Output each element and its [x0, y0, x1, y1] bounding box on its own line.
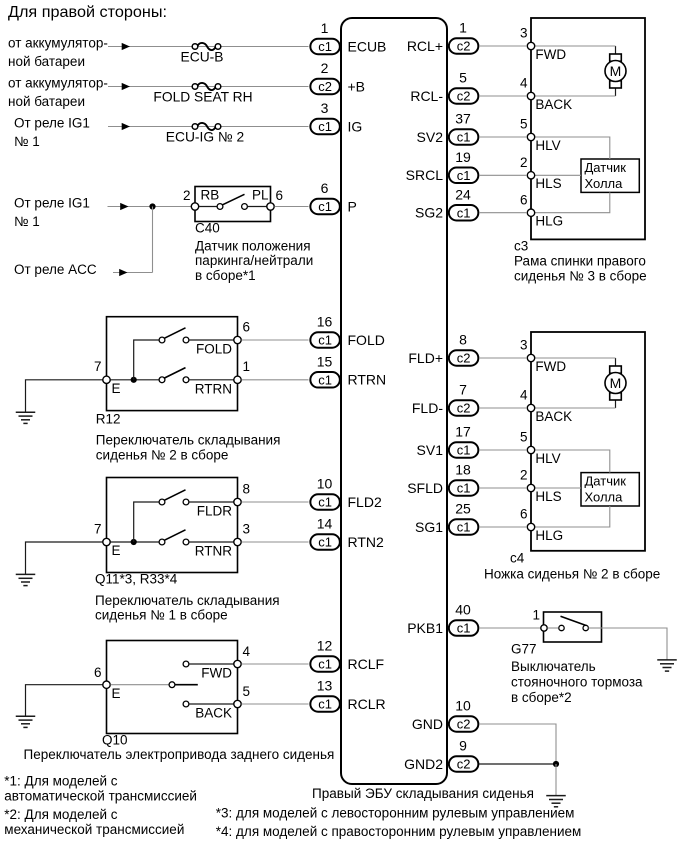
Q11 internal E wire [111, 541, 160, 543]
c4 caption [484, 567, 660, 582]
svg-text:7: 7 [94, 359, 102, 374]
svg-text:5: 5 [459, 70, 467, 86]
svg-text:2: 2 [520, 468, 528, 483]
svg-text:5: 5 [243, 684, 251, 699]
footnote *3 [216, 806, 575, 821]
svg-text:От реле IG1: От реле IG1 [14, 116, 90, 131]
svg-text:2: 2 [520, 155, 528, 170]
svg-text:c1: c1 [457, 621, 471, 636]
wire GND2 [479, 763, 556, 765]
svg-text:6: 6 [243, 319, 251, 334]
svg-text:3: 3 [321, 100, 329, 116]
svg-text:Холла: Холла [585, 176, 624, 191]
svg-text:c2: c2 [457, 717, 471, 732]
G77 wire out [589, 627, 602, 629]
pin number 18 (SFLD) [455, 462, 471, 478]
wire FLD- to assembly [479, 407, 527, 409]
C40 pin label 6 [276, 188, 284, 203]
C40 blade [223, 194, 245, 205]
svg-text:RCL-: RCL- [410, 88, 443, 104]
pin number 1 (RCL+) [459, 20, 467, 36]
connector c oval pin 7 FLD- [449, 400, 479, 416]
c3 label HLS [535, 176, 561, 191]
wire c3 HLG [535, 192, 610, 212]
svg-text:№ 1: № 1 [14, 214, 40, 229]
Q10 pin 5 terminal [234, 700, 241, 707]
fuse ECU-IG № 2 [166, 123, 244, 145]
svg-text:автоматической трансмиссией: автоматической трансмиссией [4, 789, 197, 804]
pin name FOLD [348, 332, 385, 348]
wire SRCL to assembly [479, 174, 527, 176]
R12 pin 6 terminal [234, 336, 241, 343]
svg-text:BACK: BACK [535, 97, 572, 112]
wire SFLD to assembly [479, 487, 527, 489]
svg-text:ECUB: ECUB [348, 38, 387, 54]
svg-text:*2: Для моделей с: *2: Для моделей с [4, 807, 117, 822]
connector c oval pin 12 RCLF [310, 656, 340, 672]
svg-text:ECU-B: ECU-B [181, 50, 224, 65]
svg-text:в сборе*1: в сборе*1 [195, 268, 256, 283]
svg-text:HLS: HLS [535, 176, 561, 191]
R12 designator [96, 412, 121, 427]
wire SG1 to assembly [479, 526, 527, 528]
C40 contact right [242, 204, 248, 210]
pin name RCL- [410, 88, 443, 104]
c4 label FWD [535, 359, 566, 374]
connector c oval pin 15 RTRN [310, 372, 340, 388]
c3 pin 5 terminal HLV [527, 133, 534, 140]
svg-text:Датчик: Датчик [585, 160, 627, 175]
svg-text:FLD+: FLD+ [408, 350, 443, 366]
svg-text:PL: PL [252, 187, 269, 202]
pin number 19 (SRCL) [455, 149, 471, 165]
source label for pin +B [8, 76, 108, 110]
svg-text:13: 13 [317, 678, 333, 694]
C40 internal wire left [199, 206, 217, 208]
svg-text:HLG: HLG [535, 528, 563, 543]
pin name RTRN [348, 372, 387, 388]
C40 contact label RB [201, 187, 220, 202]
svg-text:ной батареи: ной батареи [8, 54, 85, 69]
svg-text:RTRN: RTRN [348, 372, 387, 388]
svg-text:E: E [112, 381, 121, 396]
svg-text:c1: c1 [318, 697, 332, 712]
c3 label BACK [535, 97, 572, 112]
Q10 box [107, 641, 238, 734]
Q10 label E [112, 686, 121, 701]
R12 box [107, 317, 238, 411]
G77 pin 1 terminal [541, 625, 547, 631]
pin number 40 (PKB1) [455, 602, 471, 618]
wire FLD+ to assembly [479, 357, 527, 359]
arrow IG1 (P) [120, 203, 128, 210]
svg-text:FLD2: FLD2 [348, 494, 382, 510]
pin number 24 (SG2) [455, 186, 471, 202]
svg-text:GND: GND [412, 716, 443, 732]
svg-text:FOLD SEAT RH: FOLD SEAT RH [153, 90, 252, 105]
pin name P [348, 198, 357, 214]
pin name ECUB [348, 38, 387, 54]
wire SV2 to assembly [479, 136, 527, 138]
pin name RCLF [348, 656, 385, 672]
svg-text:c3: c3 [514, 239, 528, 254]
pin number 16 (FOLD) [317, 314, 333, 330]
svg-text:IG: IG [348, 118, 363, 134]
R12 pin 7 terminal E [103, 376, 110, 383]
svg-text:ной батареи: ной батареи [8, 94, 85, 109]
c4 pin label 3 [520, 338, 528, 353]
pin name RCLR [348, 696, 386, 712]
Q11 riser to FLDR [134, 502, 159, 542]
svg-text:c1: c1 [318, 495, 332, 510]
Q10 label FWD [201, 666, 232, 681]
svg-text:c1: c1 [318, 657, 332, 672]
svg-text:SG1: SG1 [415, 519, 443, 535]
svg-text:c2: c2 [457, 401, 471, 416]
svg-text:40: 40 [455, 602, 471, 618]
pin name SFLD [407, 480, 443, 496]
c4 pin label 2 [520, 468, 528, 483]
R12 wire FOLD to pin [189, 339, 234, 341]
pin name RTN2 [348, 534, 385, 550]
c4 pin 5 terminal HLV [527, 446, 534, 453]
Q10 contact FWD [183, 661, 189, 667]
pin number 10 (FLD2) [317, 476, 333, 492]
svg-text:4: 4 [520, 76, 528, 91]
pin number 7 (FLD-) [459, 382, 467, 398]
R12 riser to FOLD [134, 340, 159, 380]
svg-text:c2: c2 [457, 757, 471, 772]
pin number 37 (SV2) [455, 111, 471, 127]
svg-text:P: P [348, 198, 357, 214]
svg-text:6: 6 [520, 192, 528, 207]
c4 label HLG [535, 528, 563, 543]
svg-text:1: 1 [459, 20, 467, 36]
pin name FLD2 [348, 494, 382, 510]
Q11 label FLDR [197, 504, 233, 519]
wire c3 HLV [535, 137, 610, 159]
Q11 contact RTNR left [159, 539, 165, 545]
svg-text:BACK: BACK [535, 409, 572, 424]
wire RCL+ to assembly [479, 45, 527, 47]
C40 contact label PL [252, 187, 269, 202]
footnote *4 [216, 824, 582, 839]
svg-text:4: 4 [520, 388, 528, 403]
arrow feed ECUB [122, 43, 130, 50]
svg-text:c1: c1 [457, 168, 471, 183]
svg-text:GND2: GND2 [404, 756, 443, 772]
pin name SV2 [417, 129, 444, 145]
svg-text:ECU-IG № 2: ECU-IG № 2 [166, 130, 244, 145]
c4 label BACK [535, 409, 572, 424]
svg-text:G77: G77 [511, 642, 537, 657]
connector c oval pin 9 GND2 [449, 756, 479, 772]
svg-text:c2: c2 [318, 79, 332, 94]
R12 pin label 1 [243, 359, 251, 374]
svg-text:8: 8 [243, 481, 251, 496]
Q10 pin label 6 [94, 665, 102, 680]
svg-text:FWD: FWD [535, 359, 566, 374]
svg-text:Переключатель складывания: Переключатель складывания [95, 593, 280, 608]
switch C40 box [195, 187, 271, 222]
svg-text:14: 14 [317, 516, 333, 532]
pin number 10 (GND) [455, 698, 471, 714]
source label IG1 relay (P) [14, 196, 90, 230]
svg-text:c1: c1 [318, 119, 332, 134]
hall sensor box c3 [581, 159, 639, 192]
c4 pin 6 terminal HLG [527, 523, 534, 530]
svg-text:SV2: SV2 [417, 129, 444, 145]
svg-text:c1: c1 [318, 535, 332, 550]
ECU caption [312, 786, 534, 801]
R12 internal E wire [111, 379, 160, 381]
Q11 pin label 3 [243, 521, 251, 536]
c4 box [531, 332, 645, 551]
Q11 pin label 7 [94, 521, 102, 536]
wire c3 BACK to motor [535, 95, 616, 97]
c3 pin label 3 [520, 26, 528, 41]
Q10 wire BACK to pin [189, 703, 234, 705]
wire feed +B [108, 86, 309, 88]
pin number 12 (RCLF) [317, 638, 333, 654]
wire R12 FOLD to ECU [242, 339, 309, 341]
svg-text:17: 17 [455, 424, 471, 440]
svg-text:FOLD: FOLD [196, 342, 232, 357]
c4 pin label 5 [520, 430, 528, 445]
wire c4 HLS [535, 487, 581, 489]
connector c oval pin 3 IG [310, 119, 340, 135]
wire Q11 RTNR to ECU [242, 541, 309, 543]
svg-text:E: E [112, 543, 121, 558]
connector c oval pin 16 FOLD [310, 332, 340, 348]
ground symbol GND [546, 796, 566, 807]
c3 box [531, 18, 645, 239]
svg-text:FLDR: FLDR [197, 504, 233, 519]
pin number 13 (RCLR) [317, 678, 333, 694]
svg-text:1: 1 [532, 608, 540, 623]
C40 contact left [217, 204, 223, 210]
Q11 designator [95, 572, 178, 587]
R12 contact RTRN left [159, 377, 165, 383]
svg-text:c2: c2 [457, 351, 471, 366]
svg-text:25: 25 [455, 501, 471, 517]
wire c4 BACK to motor [535, 407, 616, 409]
svg-text:3: 3 [243, 521, 251, 536]
svg-text:*3: для моделей с левосторонни: *3: для моделей с левосторонним рулевым … [216, 806, 575, 821]
c3 caption [514, 254, 647, 284]
Q10 designator [102, 732, 128, 747]
c3 pin label 4 [520, 76, 528, 91]
svg-text:механической трансмиссией: механической трансмиссией [4, 822, 184, 837]
G77 caption [511, 659, 643, 705]
c4 pin 4 terminal BACK [527, 404, 534, 411]
pin number 6 (P) [321, 180, 329, 196]
G77 contact right [583, 625, 588, 630]
svg-text:C40: C40 [195, 221, 220, 236]
pin name FLD+ [408, 350, 443, 366]
svg-text:M: M [610, 375, 622, 391]
svg-text:RTN2: RTN2 [348, 534, 385, 550]
svg-text:RTRN: RTRN [195, 381, 232, 396]
wire GND riser to ground [555, 764, 557, 796]
arrow ACC [119, 269, 127, 276]
Q10 pin label 4 [243, 644, 251, 659]
pin number 9 (GND2) [459, 738, 467, 754]
wire IG1 to C40 [108, 206, 196, 208]
svg-text:Выключатель: Выключатель [511, 659, 596, 674]
wire c4 HLG [535, 506, 610, 527]
svg-text:Переключатель электропривода з: Переключатель электропривода заднего сид… [24, 747, 335, 762]
svg-text:от аккумулятор-: от аккумулятор- [8, 36, 108, 51]
svg-text:*1: Для моделей с: *1: Для моделей с [4, 773, 117, 788]
pin name GND2 [404, 756, 443, 772]
wire feed IG [108, 126, 309, 128]
connector c oval pin 19 SRCL [449, 168, 479, 184]
footnote *2 [4, 807, 184, 837]
svg-text:*4: для моделей с правосторонн: *4: для моделей с правосторонним рулевым… [216, 824, 582, 839]
svg-text:От реле IG1: От реле IG1 [14, 196, 90, 211]
wire ACC riser [152, 207, 154, 273]
ECU right seat folding ECU box [341, 18, 447, 784]
svg-text:c1: c1 [457, 205, 471, 220]
Q10 common blade [175, 684, 198, 686]
R12 contact FOLD right [183, 337, 189, 343]
Q11 label RTNR [195, 544, 233, 559]
R12 junction node [131, 377, 137, 383]
Q11 wire FLDR to pin [189, 501, 234, 503]
svg-text:c1: c1 [457, 481, 471, 496]
Q10 internal E wire [111, 684, 169, 686]
Q11 pin 8 terminal [234, 498, 241, 505]
R12 blade RTRN [165, 368, 186, 378]
arrow feed +B [122, 83, 130, 90]
Q11 pin 7 terminal E [103, 538, 110, 545]
wire R12 RTRN to ECU [242, 379, 309, 381]
connector c oval pin 1 ECUB [310, 39, 340, 55]
connector c oval pin 10 GND [449, 716, 479, 732]
Q11 pin 3 terminal [234, 538, 241, 545]
pin name GND [412, 716, 443, 732]
pin name RCL+ [407, 38, 443, 54]
svg-text:c1: c1 [457, 130, 471, 145]
wire PKB1 to G77 [479, 627, 544, 629]
c3 pin 3 terminal FWD [527, 42, 534, 49]
svg-text:7: 7 [94, 521, 102, 536]
svg-text:2: 2 [321, 60, 329, 76]
svg-text:HLS: HLS [535, 489, 561, 504]
svg-text:сиденья № 1 в сборе: сиденья № 1 в сборе [95, 608, 228, 623]
Q10 contact BACK [183, 701, 189, 707]
svg-text:6: 6 [94, 665, 102, 680]
svg-text:RB: RB [201, 187, 220, 202]
svg-text:сиденья № 3 в сборе: сиденья № 3 в сборе [514, 269, 647, 284]
svg-text:10: 10 [317, 476, 333, 492]
R12 wire RTRN to pin [189, 379, 234, 381]
source label ACC relay [14, 262, 97, 277]
c3 label HLG [535, 214, 563, 229]
footnote *1 [4, 773, 197, 803]
G77 blade [561, 616, 587, 625]
pin number 8 (FLD+) [459, 332, 467, 348]
R12 pin label 6 [243, 319, 251, 334]
svg-text:c1: c1 [318, 39, 332, 54]
svg-text:c1: c1 [457, 520, 471, 535]
wire c4 FWD to motor [535, 357, 616, 359]
c3 label FWD [535, 47, 566, 62]
C40 caption [195, 238, 313, 283]
pin number 14 (RTN2) [317, 516, 333, 532]
connector c oval pin 37 SV2 [449, 129, 479, 145]
svg-text:Для правой стороны:: Для правой стороны: [8, 4, 167, 21]
svg-text:RCL+: RCL+ [407, 38, 443, 54]
c3 pin 2 terminal HLS [527, 172, 534, 179]
c4 label HLV [535, 451, 560, 466]
svg-text:от аккумулятор-: от аккумулятор- [8, 76, 108, 91]
connector c oval pin 5 RCL- [449, 88, 479, 104]
pin name SG2 [415, 205, 443, 221]
R12 caption [96, 433, 281, 463]
pin number 3 (IG) [321, 100, 329, 116]
svg-text:Ножка сиденья № 2 в сборе: Ножка сиденья № 2 в сборе [484, 567, 660, 582]
Q10 pin label 5 [243, 684, 251, 699]
wire feed ECUB [108, 46, 309, 48]
Q11 contact FLDR right [183, 499, 189, 505]
svg-text:18: 18 [455, 462, 471, 478]
connector c oval pin 24 SG2 [449, 205, 479, 221]
C40 designator [195, 221, 220, 236]
R12 pin 1 terminal [234, 376, 241, 383]
ground symbol R12 [16, 412, 36, 423]
pin number 17 (SV1) [455, 424, 471, 440]
pin number 1 (ECUB) [321, 20, 329, 36]
C40 pin label 2 [183, 188, 191, 203]
wire Q10 BACK to ECU [242, 703, 309, 705]
svg-text:c1: c1 [457, 443, 471, 458]
wire Q11 FLDR to ECU [242, 501, 309, 503]
Q11 pin label 8 [243, 481, 251, 496]
svg-text:c1: c1 [318, 199, 332, 214]
svg-text:E: E [112, 686, 121, 701]
Q11 contact RTNR right [183, 539, 189, 545]
svg-text:От реле ACC: От реле ACC [14, 262, 97, 277]
c3 label HLV [535, 138, 560, 153]
c4 pin 2 terminal HLS [527, 484, 534, 491]
wire ACC feed [113, 272, 153, 274]
svg-text:FWD: FWD [201, 666, 232, 681]
pin number 25 (SG1) [455, 501, 471, 517]
svg-text:FOLD: FOLD [348, 332, 385, 348]
svg-text:5: 5 [520, 430, 528, 445]
pin number 5 (RCL-) [459, 70, 467, 86]
ground symbol Q10 [16, 716, 36, 727]
R12 label FOLD [196, 342, 232, 357]
pin name PKB1 [407, 620, 443, 636]
svg-text:Холла: Холла [585, 490, 624, 505]
svg-text:4: 4 [243, 644, 251, 659]
wire C40 to ECU P [275, 206, 309, 208]
svg-text:SRCL: SRCL [406, 167, 444, 183]
svg-text:HLV: HLV [535, 138, 560, 153]
svg-text:HLV: HLV [535, 451, 560, 466]
wire Q10 FWD to ECU [242, 663, 309, 665]
c3 designator [514, 239, 528, 254]
Q11 box [107, 478, 238, 573]
svg-text:3: 3 [520, 26, 528, 41]
svg-text:FWD: FWD [535, 47, 566, 62]
connector c oval pin 25 SG1 [449, 519, 479, 535]
pin name SV1 [417, 442, 444, 458]
svg-text:в сборе*2: в сборе*2 [511, 690, 572, 705]
